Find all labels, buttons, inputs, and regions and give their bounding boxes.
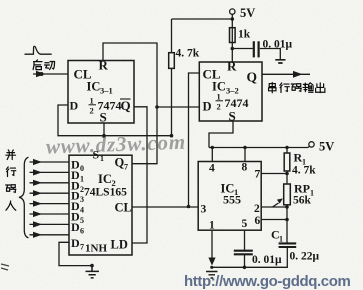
svg-text:7: 7	[255, 169, 261, 181]
svg-text:www.dz3w.com: www.dz3w.com	[46, 130, 187, 159]
svg-text:2: 2	[254, 203, 260, 215]
svg-text:1k: 1k	[238, 29, 251, 41]
svg-text:S: S	[93, 148, 100, 162]
svg-text:Q: Q	[247, 70, 258, 85]
wiper arrow RP1	[273, 203, 279, 207]
arrowhead on trigger wire	[36, 71, 45, 77]
wire: D of IC3-2 line from V2 junction	[157, 106, 199, 108]
svg-text:D: D	[71, 236, 80, 250]
wire: pin6 line	[261, 219, 287, 221]
wire: V2 down to Q7 staple	[132, 107, 157, 164]
capacitor 0.01u bottom	[244, 230, 246, 250]
svg-text:3–1: 3–1	[100, 86, 113, 96]
svg-text:Q: Q	[115, 156, 125, 170]
svg-text:74LS165: 74LS165	[84, 187, 127, 199]
label 启动	[33, 60, 54, 70]
junction 4.7k bottom	[170, 134, 174, 138]
svg-text:IC: IC	[98, 172, 112, 186]
input arrows D0-D7	[30, 162, 70, 235]
svg-text:RP: RP	[294, 182, 310, 196]
resistor 4.7k	[171, 19, 173, 136]
svg-text:0. 22μ: 0. 22μ	[290, 251, 320, 263]
junction below 1k	[231, 47, 235, 51]
wire: clock line 555 pin3 to CL of IC2	[132, 206, 198, 208]
wire: R pin of IC3-1 up and over to net V2	[103, 43, 157, 107]
svg-text:4: 4	[80, 206, 84, 215]
svg-text:1NH: 1NH	[85, 243, 107, 255]
wire: pin4 and pin8 stubs to 5V rail	[212, 148, 245, 162]
svg-text:7: 7	[80, 243, 84, 252]
svg-text:IC: IC	[87, 80, 101, 94]
wire: Q output of IC3-2	[262, 73, 310, 75]
wire: pin2 line	[261, 206, 287, 208]
svg-text:1: 1	[279, 235, 283, 244]
svg-text:1: 1	[80, 174, 84, 183]
wire: top rail from 4.7k to 5V node	[172, 18, 233, 20]
svg-text:555: 555	[223, 193, 241, 207]
trigger pulse symbol	[25, 46, 52, 54]
small ground bar top right	[275, 60, 285, 63]
stray mark bottom-left	[1, 264, 9, 270]
svg-text:4: 4	[209, 163, 215, 175]
5V rail lower right	[209, 147, 308, 149]
svg-text:Q: Q	[121, 98, 131, 113]
svg-text:2: 2	[217, 102, 221, 112]
svg-text:http://www.go-gddq.com: http://www.go-gddq.com	[184, 273, 351, 290]
brace	[19, 157, 29, 238]
arrowhead output	[293, 71, 303, 78]
potentiometer RP1	[286, 174, 288, 185]
svg-text:D: D	[71, 220, 80, 234]
junction clock branch	[187, 205, 191, 209]
flip-flop IC3-1 box	[68, 61, 134, 124]
wire: R pin of IC3-2 up to 1k node	[231, 19, 233, 62]
svg-text:6: 6	[255, 215, 261, 227]
resistor 1k	[230, 28, 236, 43]
ground symbol left	[86, 266, 100, 278]
555 timer IC1 box	[198, 162, 261, 231]
svg-text:7: 7	[124, 163, 128, 172]
svg-text:5: 5	[242, 218, 248, 230]
capacitor 0.01u top	[232, 48, 253, 50]
wire: S pin stub of IC3-1	[103, 123, 105, 136]
svg-text:0. 01μ: 0. 01μ	[252, 254, 282, 266]
svg-text:S: S	[100, 110, 107, 125]
svg-text:D: D	[70, 99, 79, 113]
svg-text:1: 1	[100, 154, 104, 163]
ground hatches bottom	[206, 272, 218, 279]
wire: trigger to CL of IC3-1	[33, 73, 68, 75]
svg-text:6: 6	[80, 226, 84, 235]
watermark www.dz3w.com	[46, 130, 187, 159]
wire: S of IC3-2 down left to 5V rail	[209, 121, 233, 148]
svg-text:0: 0	[80, 164, 84, 173]
svg-text:5V: 5V	[319, 140, 334, 154]
junction D7 ground	[90, 264, 94, 268]
label 并行码入 vertical	[6, 150, 16, 210]
resistor R1	[285, 146, 288, 149]
svg-text:D: D	[203, 100, 212, 114]
svg-text:CL: CL	[115, 201, 132, 215]
svg-text:LD: LD	[111, 238, 128, 252]
wire: D pin of IC3-1 left and down to pullup line	[58, 105, 172, 136]
svg-text:56k: 56k	[293, 195, 312, 207]
junction at 5V rail top	[231, 17, 235, 21]
svg-text:4. 7k: 4. 7k	[176, 48, 200, 60]
5V terminal top	[231, 14, 233, 19]
svg-text:S: S	[229, 109, 236, 124]
svg-text:5V: 5V	[240, 6, 255, 20]
svg-text:1: 1	[90, 96, 94, 106]
svg-text:4. 7k: 4. 7k	[292, 165, 316, 177]
IC2 74LS165 box	[69, 155, 132, 255]
svg-text:1: 1	[217, 92, 221, 102]
junction node V2	[155, 105, 159, 109]
wire: D7 to ground	[59, 242, 92, 265]
wire: pin7 line	[261, 173, 287, 175]
wire: Qbar of IC3-1 right then down to LD	[132, 107, 147, 243]
svg-text:5: 5	[80, 216, 84, 225]
label 串行码输出	[269, 83, 325, 93]
svg-text:2: 2	[90, 106, 94, 116]
junction S pin	[102, 134, 106, 138]
wire: CL of IC3-2 left and down to clock line	[189, 73, 200, 207]
wire: pin1 down with ground arrow	[211, 230, 213, 258]
flip-flop IC3-2 box	[199, 62, 262, 121]
svg-text:8: 8	[242, 162, 248, 174]
svg-text:1: 1	[209, 220, 215, 232]
svg-text:3–2: 3–2	[226, 86, 239, 96]
svg-text:3: 3	[201, 204, 207, 216]
